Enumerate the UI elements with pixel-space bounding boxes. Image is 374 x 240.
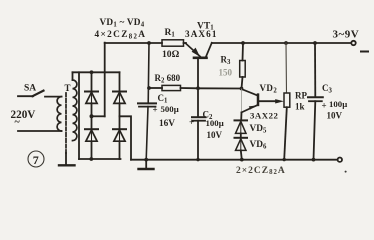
transistor VT1	[186, 43, 212, 58]
node: output terminal +	[351, 41, 355, 45]
wire: C1 node to R2	[149, 87, 162, 89]
svg-text:VD1 ~ VD4: VD1 ~ VD4	[100, 18, 145, 28]
wire: R2 to base node	[181, 87, 199, 89]
wire: stub to VD3	[119, 72, 121, 91]
wire: VD4 to AC2 wire	[119, 141, 121, 159]
wire: top rail left segment	[105, 42, 162, 44]
wire: secondary bottom lead	[78, 72, 80, 159]
transistor VT2	[242, 89, 285, 112]
scan speck	[345, 171, 347, 173]
svg-text:3AX22: 3AX22	[250, 110, 279, 120]
wire: VD5 to VD6	[240, 133, 242, 137]
node: junction dot on AC2	[89, 157, 93, 161]
node: junction dot left column top	[90, 70, 94, 74]
resistor R2	[162, 85, 181, 90]
svg-text:RP: RP	[295, 91, 307, 101]
svg-text:16V: 16V	[159, 119, 175, 129]
capacitor C3	[308, 43, 323, 160]
switch SA blade	[33, 91, 44, 97]
wire: DC+ riser to top rail	[104, 43, 106, 117]
ground: transformer core	[59, 153, 75, 165]
diode VD3	[113, 92, 126, 104]
node: dot VD6 on bus	[240, 158, 244, 162]
node: dot C1 on bus	[144, 158, 148, 162]
svg-text:4×2CZ82A: 4×2CZ82A	[95, 30, 147, 40]
node: dot C3 tap	[313, 41, 317, 45]
wire: stub to VD1	[91, 72, 93, 91]
svg-text:R2 680: R2 680	[155, 73, 181, 84]
wire: VD2 to AC2 wire	[91, 141, 93, 159]
wire: 220V bottom feed	[18, 130, 62, 132]
potentiometer RP	[284, 43, 290, 160]
svg-text:100μ: 100μ	[329, 99, 347, 109]
wire: top rail right segment (output)	[212, 42, 352, 44]
node: dot C3 on bus	[312, 158, 316, 162]
wire: base node to R3 bottom	[198, 87, 242, 89]
node: dot RP tap	[284, 41, 288, 45]
resistor R1	[162, 40, 184, 46]
transformer T primary winding	[57, 97, 61, 131]
resistor R3	[240, 43, 246, 89]
svg-text:500μ: 500μ	[161, 104, 179, 114]
transformer T core	[65, 93, 67, 153]
node: dot R3 bottom junction	[240, 87, 244, 91]
wire: 220V top feed	[18, 95, 33, 97]
transformer T secondary winding	[73, 80, 77, 141]
svg-text:+: +	[153, 105, 158, 115]
wire: mid-left jog to riser	[92, 115, 105, 117]
node: dot C2 on bus	[196, 158, 199, 161]
diode VD6	[235, 138, 248, 151]
capacitor C2	[192, 88, 206, 159]
wire: mid-right jog	[120, 116, 132, 159]
svg-text:SA: SA	[24, 84, 36, 94]
diode VD4	[113, 129, 126, 141]
svg-text:3AX61: 3AX61	[185, 29, 218, 39]
svg-text:1k: 1k	[295, 102, 305, 112]
svg-text:10V: 10V	[327, 111, 343, 121]
wire: bridge AC bottom wire	[79, 158, 121, 160]
svg-text:150: 150	[219, 68, 233, 78]
svg-text:~: ~	[15, 117, 21, 128]
figure number 7	[28, 151, 44, 167]
svg-text:3~9V: 3~9V	[333, 29, 360, 41]
wire: VT1 base lead	[197, 59, 199, 89]
polarity dash	[361, 51, 368, 53]
ground: main bus	[139, 160, 154, 169]
wire: VD6 to bus	[241, 150, 242, 159]
node: mid-left junction dot	[90, 114, 94, 118]
node: dot R3 tap	[241, 41, 245, 45]
svg-text:T: T	[65, 83, 71, 93]
diode VD2	[85, 129, 98, 141]
diode VD1	[85, 92, 98, 104]
svg-text:100μ: 100μ	[206, 118, 224, 128]
wire: VD3 to mid-right node	[119, 103, 121, 129]
node: output terminal -	[338, 158, 342, 162]
svg-text:+: +	[189, 117, 194, 127]
wire: SA to transformer primary top	[45, 96, 62, 98]
node: junction dot C1 branch on rail	[147, 41, 151, 45]
svg-text:10V: 10V	[207, 130, 223, 140]
node: dot R2 tap on C1 branch	[147, 86, 151, 90]
wire: DC- bottom bus	[131, 159, 338, 161]
capacitor C1	[138, 43, 156, 160]
wire: R1 to VT1 emitter	[184, 42, 187, 44]
svg-text:10Ω: 10Ω	[162, 49, 180, 60]
diode VD5	[235, 120, 248, 133]
svg-text:7: 7	[33, 153, 39, 167]
node: dot base node	[196, 86, 200, 90]
node: dot RP on bus	[283, 158, 286, 161]
svg-text:2×2CZ82A: 2×2CZ82A	[236, 166, 286, 176]
wire: bridge AC top bus	[73, 71, 120, 73]
wire: VD2 upper lead	[91, 116, 93, 129]
svg-text:+: +	[322, 101, 327, 111]
wire: VT2 emitter to VD5	[240, 112, 242, 119]
wire: secondary top lead	[72, 72, 74, 80]
wire: VD1 to mid-left node	[91, 103, 93, 116]
